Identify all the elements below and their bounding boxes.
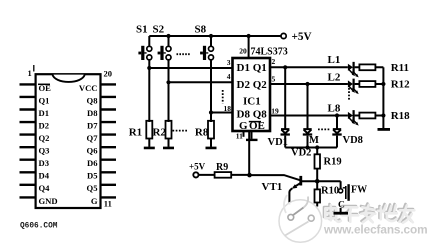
svg-text:Q1: Q1 <box>39 95 50 105</box>
svg-text:R12: R12 <box>391 79 410 91</box>
svg-text:Q606.COM: Q606.COM <box>20 223 58 231</box>
svg-text:R10: R10 <box>321 185 339 196</box>
svg-text:R11: R11 <box>391 62 409 74</box>
svg-text:L2: L2 <box>328 71 341 83</box>
svg-text:R2: R2 <box>153 126 167 138</box>
svg-text:11: 11 <box>236 132 243 141</box>
svg-text:4: 4 <box>227 72 231 81</box>
svg-text:D1: D1 <box>39 108 50 118</box>
svg-text:R1: R1 <box>129 126 142 138</box>
svg-text:VD1: VD1 <box>268 137 288 148</box>
svg-text:+5V: +5V <box>189 161 206 171</box>
svg-text:R18: R18 <box>391 110 410 122</box>
svg-text:D3: D3 <box>39 158 50 168</box>
svg-text:IC1: IC1 <box>243 96 261 108</box>
svg-text:Q6: Q6 <box>87 146 99 156</box>
svg-text:www.elecfans.com: www.elecfans.com <box>323 223 428 237</box>
svg-text:19: 19 <box>271 107 279 116</box>
svg-text:Q4: Q4 <box>39 183 51 193</box>
svg-text:11: 11 <box>104 199 112 209</box>
svg-text:20: 20 <box>104 69 113 79</box>
svg-text:18: 18 <box>224 104 232 113</box>
svg-text:Q2: Q2 <box>39 133 50 143</box>
svg-text:D4: D4 <box>39 171 50 181</box>
svg-text:VCC: VCC <box>79 83 98 93</box>
svg-text:D8 Q8: D8 Q8 <box>237 109 268 121</box>
svg-text:20: 20 <box>239 47 247 56</box>
svg-text:R8: R8 <box>195 126 209 138</box>
svg-text:D8: D8 <box>87 108 98 118</box>
svg-text:D1 Q1: D1 Q1 <box>237 62 267 74</box>
svg-text:R9: R9 <box>216 162 228 173</box>
svg-text:D6: D6 <box>87 158 98 168</box>
svg-text:L8: L8 <box>328 102 341 114</box>
svg-text:Q8: Q8 <box>87 95 99 105</box>
svg-text:S2: S2 <box>153 24 165 36</box>
svg-text:L1: L1 <box>328 54 341 66</box>
svg-text:D7: D7 <box>87 120 98 130</box>
svg-text:M: M <box>309 135 319 146</box>
svg-text:5: 5 <box>272 75 276 84</box>
svg-text:S1: S1 <box>136 24 148 36</box>
svg-text:GND: GND <box>39 196 58 206</box>
svg-text:1: 1 <box>28 68 32 78</box>
svg-text:Q5: Q5 <box>87 183 98 193</box>
svg-text:D5: D5 <box>87 171 98 181</box>
svg-text:G: G <box>239 120 248 132</box>
svg-text:74LS373: 74LS373 <box>251 47 288 58</box>
svg-text:+5V: +5V <box>292 31 312 43</box>
svg-text:3: 3 <box>227 58 231 67</box>
svg-text:R19: R19 <box>324 157 342 168</box>
svg-text:OE: OE <box>39 83 52 93</box>
svg-text:D2: D2 <box>39 120 50 130</box>
svg-text:Q7: Q7 <box>87 133 99 143</box>
svg-text:Q3: Q3 <box>39 146 50 156</box>
svg-text:VD8: VD8 <box>343 135 363 146</box>
svg-text:VT1: VT1 <box>262 181 283 193</box>
svg-text:2: 2 <box>272 57 276 66</box>
svg-text:FW: FW <box>351 184 367 195</box>
svg-text:D2 Q2: D2 Q2 <box>237 79 268 91</box>
svg-text:G: G <box>91 196 98 206</box>
svg-text:S8: S8 <box>195 24 207 36</box>
